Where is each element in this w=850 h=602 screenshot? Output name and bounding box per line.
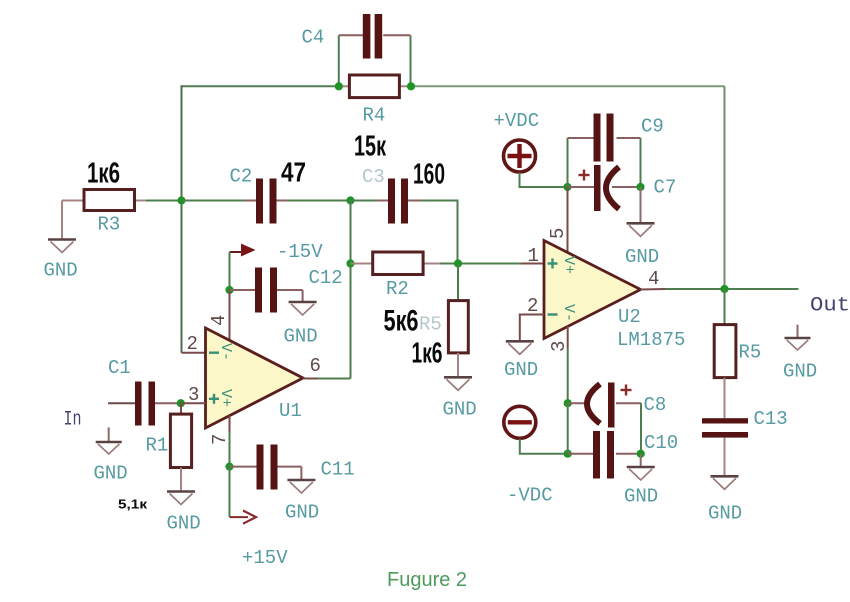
svg-text:C12: C12 xyxy=(309,267,343,289)
resistor R5 right xyxy=(714,325,736,419)
resistor R5 mid xyxy=(448,301,468,377)
label R5 mid washed xyxy=(419,314,442,336)
ground C13 xyxy=(708,476,742,524)
svg-text:4: 4 xyxy=(208,315,230,326)
wire C8-C10 link xyxy=(567,403,569,454)
value 15k xyxy=(354,131,386,163)
svg-text:C11: C11 xyxy=(321,459,355,481)
svg-text:V+: V+ xyxy=(217,389,234,407)
svg-text:C7: C7 xyxy=(654,177,677,199)
wire C11 node down to +15V xyxy=(229,467,231,517)
value 160 xyxy=(413,159,445,191)
pin number 5 U2 rotated xyxy=(547,228,569,239)
capacitor C13 xyxy=(702,418,748,476)
wire +VDC to pin5 node xyxy=(520,173,568,188)
pin number 3 U2 rotated xyxy=(548,341,570,352)
wire U1 pin7 stub xyxy=(229,416,231,433)
svg-text:U1: U1 xyxy=(279,400,302,422)
ground C10 xyxy=(624,454,658,508)
svg-text:Out: Out xyxy=(810,295,850,318)
power flag +15V xyxy=(230,511,289,570)
svg-text:1к6: 1к6 xyxy=(87,158,120,190)
svg-text:GND: GND xyxy=(443,399,477,421)
svg-text:R3: R3 xyxy=(98,214,121,236)
wire pin3 to C8 node xyxy=(567,348,569,403)
wire U1 pin3 stub xyxy=(181,402,206,404)
power symbol -VDC xyxy=(504,406,553,506)
pin number 3 U1 xyxy=(188,384,199,406)
wire corner down to R2 node xyxy=(457,200,459,264)
wire C4 right riser xyxy=(410,35,412,86)
junction R2 left node xyxy=(346,259,354,267)
svg-text:7: 7 xyxy=(209,434,231,445)
power symbol +VDC xyxy=(494,110,540,172)
wire mid node down to U1 output xyxy=(350,201,352,379)
wire U1 output to feedback vertical xyxy=(318,378,351,380)
svg-text:1: 1 xyxy=(528,245,539,267)
capacitor C3 xyxy=(376,179,421,224)
label R5 right xyxy=(739,342,762,364)
capacitor C4 xyxy=(339,14,411,59)
ground C11 xyxy=(285,467,319,524)
capacitor C7 polarized xyxy=(568,165,641,211)
capacitor C11 xyxy=(230,445,302,490)
svg-text:Fugure 2: Fugure 2 xyxy=(387,569,467,591)
value 5k6 xyxy=(384,305,419,338)
wire pin7 to C11 node xyxy=(229,432,231,467)
capacitor C10 xyxy=(568,431,641,479)
svg-text:GND: GND xyxy=(624,486,658,508)
wire C4 left riser xyxy=(338,35,340,86)
label R2 xyxy=(386,278,409,300)
svg-text:C2: C2 xyxy=(230,166,253,188)
wire C9 right riser xyxy=(640,138,642,187)
junction C11 node xyxy=(225,463,233,471)
wire U2 output to Out xyxy=(665,288,798,290)
svg-text:160: 160 xyxy=(413,159,445,191)
ground U2 pin2 xyxy=(504,341,538,381)
wire In to C1 xyxy=(108,402,135,404)
svg-text:6: 6 xyxy=(310,355,321,377)
svg-text:GND: GND xyxy=(44,260,78,282)
wire R3 to feedback node xyxy=(146,200,182,202)
svg-text:1к6: 1к6 xyxy=(412,338,443,370)
wire output node to R5 xyxy=(724,289,726,325)
svg-text:GND: GND xyxy=(625,246,659,268)
pin number 6 U1 xyxy=(310,355,321,377)
label LM1875 xyxy=(617,329,685,351)
ground R5 mid xyxy=(443,377,477,420)
wire C8 right riser xyxy=(640,403,642,454)
junction C10 right node xyxy=(637,450,645,458)
capacitor C2 xyxy=(244,179,289,224)
svg-text:LM1875: LM1875 xyxy=(617,329,685,351)
junction C7 right node xyxy=(636,183,644,191)
pin number 1 U2 xyxy=(528,245,539,267)
svg-text:5к6: 5к6 xyxy=(384,305,419,338)
svg-text:GND: GND xyxy=(167,513,201,535)
caption Fugure 2 xyxy=(387,569,467,591)
op-amp U1 xyxy=(206,328,304,428)
capacitor C9 xyxy=(568,114,641,162)
wire -15V down to C12 node xyxy=(229,252,231,290)
junction C10 left node xyxy=(564,450,572,458)
svg-text:-VDC: -VDC xyxy=(507,485,553,507)
svg-text:C4: C4 xyxy=(302,27,325,49)
capacitor C1 xyxy=(135,382,181,426)
junction C8 node xyxy=(564,399,572,407)
wire U2 pin2 stub xyxy=(520,315,544,342)
wire top rail right segment xyxy=(411,85,725,87)
label C12 xyxy=(309,267,343,289)
junction output node xyxy=(720,285,728,293)
ground Out xyxy=(783,325,817,383)
svg-text:V-: V- xyxy=(560,304,577,322)
label Out xyxy=(810,295,850,318)
junction C4-R4 right xyxy=(407,82,415,90)
capacitor C8 polarized xyxy=(568,383,641,428)
label In xyxy=(64,409,82,432)
svg-text:2: 2 xyxy=(187,333,198,355)
ground R1 xyxy=(167,492,201,535)
wire node down to R5 mid xyxy=(457,264,459,301)
junction pin5 node xyxy=(563,183,571,191)
svg-text:C1: C1 xyxy=(108,357,131,379)
label C13 xyxy=(754,408,788,430)
svg-text:C9: C9 xyxy=(641,116,664,138)
svg-text:GND: GND xyxy=(284,326,318,348)
label R3 xyxy=(98,214,121,236)
svg-text:R4: R4 xyxy=(363,105,386,127)
wire node to C2 xyxy=(182,200,245,202)
svg-text:C3: C3 xyxy=(362,166,385,188)
wire U2 output stub xyxy=(641,288,666,291)
label C11 xyxy=(321,459,355,481)
pin number 2 U1 xyxy=(187,333,198,355)
wire top rail left segment xyxy=(182,85,339,87)
svg-text:V+: V+ xyxy=(560,256,577,274)
wire C9 left riser xyxy=(567,138,569,187)
resistor R1 xyxy=(170,403,191,491)
junction U1 pin3 node xyxy=(177,399,185,407)
wire left vertical feedback xyxy=(181,85,183,352)
svg-text:GND: GND xyxy=(94,463,128,485)
label C2 xyxy=(230,166,253,188)
svg-text:C8: C8 xyxy=(644,394,667,416)
label U2 xyxy=(618,306,641,328)
label C9 xyxy=(641,116,664,138)
junction mid node xyxy=(346,196,354,204)
svg-text:3: 3 xyxy=(188,384,199,406)
junction R3 node xyxy=(177,196,185,204)
svg-text:U2: U2 xyxy=(618,306,641,328)
wire U1 pin2 stub xyxy=(182,352,206,354)
value 47 xyxy=(281,157,306,188)
svg-text:4: 4 xyxy=(648,268,659,290)
svg-text:-15V: -15V xyxy=(277,241,323,263)
svg-text:+VDC: +VDC xyxy=(494,110,540,132)
label R1 xyxy=(146,435,169,457)
svg-text:R5: R5 xyxy=(419,314,442,336)
svg-text:R2: R2 xyxy=(386,278,409,300)
wire U2 pin3 riser xyxy=(567,326,569,348)
svg-text:5: 5 xyxy=(547,228,569,239)
value 5,1k xyxy=(118,497,148,512)
resistor R2 xyxy=(351,252,441,275)
wire C2 to mid node xyxy=(289,200,351,202)
wire mid node to C3 xyxy=(351,200,377,202)
svg-text:In: In xyxy=(64,409,82,432)
wire U2 pin1 stub xyxy=(521,263,544,265)
wire -VDC to C10 node xyxy=(520,439,568,454)
wire pin4 stub xyxy=(229,290,231,341)
value 1k6 R5mid xyxy=(412,338,443,370)
junction C4-R4 left xyxy=(335,82,343,90)
wire right vertical feedback xyxy=(724,86,726,289)
ground In xyxy=(94,427,128,484)
label U1 xyxy=(279,400,302,422)
svg-text:GND: GND xyxy=(708,503,742,525)
pin number 7 U1 rotated xyxy=(209,434,231,445)
power flag -15V xyxy=(230,241,324,263)
ground C7 xyxy=(625,187,659,268)
svg-text:C13: C13 xyxy=(754,408,788,430)
junction C12 node xyxy=(225,286,233,294)
pin number 2 U2 xyxy=(527,295,538,317)
junction R2 right node xyxy=(454,259,462,267)
svg-text:GND: GND xyxy=(783,361,817,383)
label C1 xyxy=(108,357,131,379)
resistor R4 xyxy=(339,75,411,98)
svg-text:15к: 15к xyxy=(354,131,386,163)
svg-text:R5: R5 xyxy=(739,342,762,364)
label R4 xyxy=(363,105,386,127)
label C7 xyxy=(654,177,677,199)
pin number 4 U2 xyxy=(648,268,659,290)
svg-text:V-: V- xyxy=(217,343,234,361)
wire U2 pin5 riser xyxy=(567,187,569,253)
ground C12 xyxy=(284,290,318,348)
op-amp U2 xyxy=(544,241,641,339)
wire U1 output stub xyxy=(303,378,318,380)
svg-text:GND: GND xyxy=(285,502,319,524)
label C4 xyxy=(302,27,325,49)
label C8 xyxy=(644,394,667,416)
wire R2 to U2 pin1 xyxy=(440,263,521,265)
capacitor C12 xyxy=(230,268,303,313)
pin number 4 U1 rotated xyxy=(208,315,230,326)
resistor R3 xyxy=(62,190,146,211)
value 1k6 R3 xyxy=(87,158,120,190)
wire C3 to right corner xyxy=(421,200,458,202)
ground R3 xyxy=(44,201,78,282)
svg-text:C10: C10 xyxy=(644,432,678,454)
svg-text:GND: GND xyxy=(504,359,538,381)
svg-text:+15V: +15V xyxy=(242,547,288,569)
svg-text:5,1к: 5,1к xyxy=(118,497,148,512)
svg-text:47: 47 xyxy=(281,157,306,188)
svg-text:R1: R1 xyxy=(146,435,169,457)
label C3 washed xyxy=(362,166,385,188)
svg-text:2: 2 xyxy=(527,295,538,317)
label C10 xyxy=(644,432,678,454)
